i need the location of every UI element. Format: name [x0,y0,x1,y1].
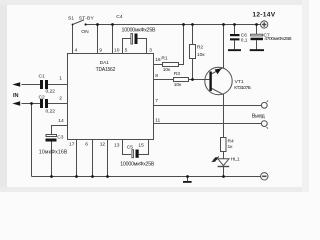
svg-text:14: 14 [58,118,64,124]
svg-text:13: 13 [114,143,120,149]
svg-text:15: 15 [138,143,144,149]
svg-text:ST-BY: ST-BY [79,15,95,21]
svg-text:R1: R1 [161,55,168,61]
svg-text:C2: C2 [39,94,46,100]
svg-text:10к: 10к [197,52,205,58]
svg-text:IN: IN [13,93,19,99]
svg-text:5: 5 [125,47,128,53]
svg-text:8: 8 [155,73,158,79]
svg-text:R4: R4 [228,139,235,145]
svg-text:3: 3 [149,47,152,53]
svg-text:16: 16 [155,57,161,63]
svg-text:R3: R3 [174,71,181,77]
svg-text:12-14V: 12-14V [252,12,275,19]
svg-text:КТ3107Б: КТ3107Б [234,85,251,91]
svg-text:9: 9 [99,47,102,53]
svg-text:17: 17 [69,142,75,148]
svg-text:R2: R2 [197,45,204,51]
svg-text:0,1: 0,1 [241,37,248,43]
svg-text:Выход: Выход [252,113,265,119]
svg-text:0,22: 0,22 [46,89,56,95]
svg-text:4700мкФх25В: 4700мкФх25В [264,36,291,42]
svg-text:C4: C4 [116,14,123,20]
svg-text:10000мкФх25В: 10000мкФх25В [122,28,157,34]
svg-text:10к: 10к [174,82,182,88]
svg-text:4: 4 [75,47,78,53]
svg-text:DA1: DA1 [100,60,110,66]
svg-text:0,22: 0,22 [46,109,56,115]
svg-text:11: 11 [155,118,160,124]
svg-text:10: 10 [114,47,120,53]
svg-text:S1: S1 [68,15,74,21]
svg-text:10к: 10к [163,67,171,73]
svg-text:1: 1 [59,76,62,82]
svg-text:HL1: HL1 [231,156,240,162]
svg-text:10000мкФх25В: 10000мкФх25В [120,161,155,167]
svg-text:C3: C3 [57,134,64,140]
svg-text:12: 12 [100,142,106,148]
svg-text:C5: C5 [127,145,134,151]
svg-text:TDA1562: TDA1562 [96,67,116,73]
svg-text:2: 2 [59,96,62,102]
svg-text:ON: ON [81,29,89,35]
svg-text:C1: C1 [39,74,46,80]
svg-text:VT1: VT1 [235,79,244,85]
svg-text:1к: 1к [228,144,234,150]
svg-text:10мкФх16В: 10мкФх16В [39,150,68,156]
svg-text:7: 7 [155,98,158,104]
svg-text:6: 6 [85,142,88,148]
